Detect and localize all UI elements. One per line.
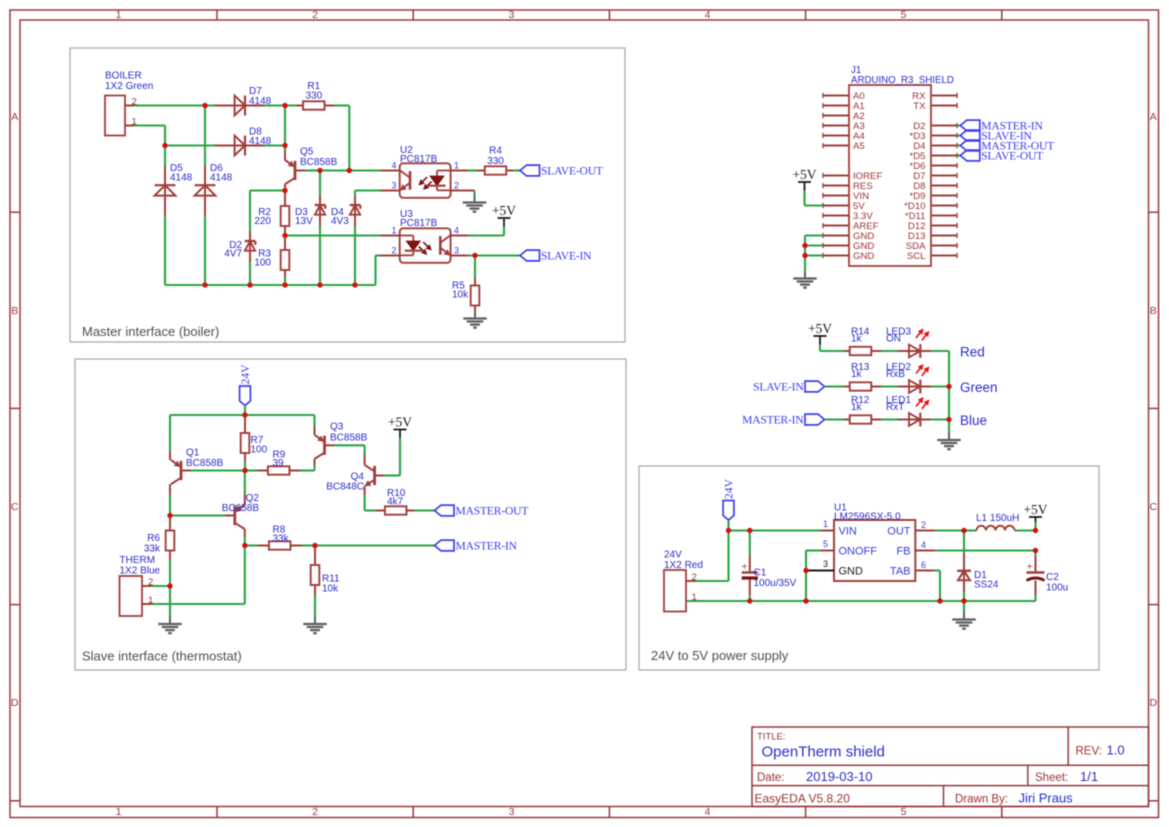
svg-text:4148: 4148 (210, 173, 233, 184)
svg-text:OUT: OUT (887, 526, 911, 538)
svg-text:1: 1 (391, 225, 396, 235)
svg-text:C: C (1150, 501, 1158, 513)
svg-text:B: B (11, 305, 18, 317)
svg-text:33k: 33k (144, 544, 161, 555)
svg-text:1k: 1k (851, 369, 863, 380)
svg-text:L1 150uH: L1 150uH (976, 513, 1019, 524)
svg-text:Jiri Praus: Jiri Praus (1019, 791, 1074, 806)
svg-text:GND: GND (853, 251, 874, 262)
svg-text:24V: 24V (239, 364, 252, 385)
svg-text:ARDUINO_R3_SHIELD: ARDUINO_R3_SHIELD (851, 75, 954, 86)
svg-text:THERM: THERM (120, 555, 156, 566)
svg-text:R6: R6 (147, 533, 160, 544)
svg-text:BC858B: BC858B (186, 458, 224, 469)
svg-text:2019-03-10: 2019-03-10 (806, 769, 873, 784)
svg-text:100: 100 (254, 257, 271, 268)
svg-text:C: C (11, 501, 19, 513)
svg-text:Q5: Q5 (300, 146, 314, 157)
svg-text:Slave interface (thermostat): Slave interface (thermostat) (82, 649, 242, 664)
svg-text:24V: 24V (723, 478, 736, 499)
svg-text:Sheet:: Sheet: (1035, 772, 1068, 784)
svg-text:LM2596SX-5.0: LM2596SX-5.0 (834, 511, 901, 522)
svg-text:OpenTherm shield: OpenTherm shield (762, 744, 885, 761)
svg-text:PC817B: PC817B (400, 218, 438, 229)
svg-text:MASTER-IN: MASTER-IN (742, 414, 804, 427)
svg-text:1: 1 (116, 9, 122, 21)
svg-text:Date:: Date: (757, 772, 785, 784)
svg-text:13V: 13V (295, 216, 313, 227)
svg-text:1: 1 (454, 160, 459, 170)
svg-text:2: 2 (921, 520, 926, 530)
svg-text:MASTER-IN: MASTER-IN (456, 540, 518, 553)
svg-text:33k: 33k (273, 534, 290, 545)
svg-text:Drawn By:: Drawn By: (955, 794, 1008, 806)
svg-text:BC858B: BC858B (222, 503, 260, 514)
svg-text:39: 39 (273, 458, 285, 469)
svg-text:4V3: 4V3 (331, 216, 349, 227)
svg-text:D: D (11, 697, 19, 709)
svg-text:2: 2 (312, 806, 318, 818)
svg-text:4V7: 4V7 (224, 249, 242, 260)
svg-text:B: B (1150, 305, 1157, 317)
svg-text:+: + (741, 562, 747, 573)
svg-text:24V: 24V (664, 550, 682, 561)
svg-text:4: 4 (705, 806, 711, 818)
svg-text:+5V: +5V (492, 203, 516, 218)
svg-text:5: 5 (901, 9, 907, 21)
svg-text:Master interface (boiler): Master interface (boiler) (82, 324, 219, 339)
svg-text:2: 2 (312, 9, 318, 21)
svg-text:1: 1 (823, 519, 828, 529)
svg-text:VIN: VIN (839, 526, 857, 538)
svg-text:100u/35V: 100u/35V (754, 578, 797, 589)
svg-text:SS24: SS24 (974, 580, 999, 591)
svg-text:ON: ON (886, 334, 901, 345)
svg-text:10k: 10k (452, 290, 469, 301)
svg-text:BC858B: BC858B (330, 433, 368, 444)
svg-text:BC848C: BC848C (326, 482, 364, 493)
svg-text:TAB: TAB (890, 566, 911, 578)
svg-text:4: 4 (391, 160, 396, 170)
svg-text:RxB: RxB (886, 369, 905, 380)
svg-text:R4: R4 (489, 146, 502, 157)
svg-text:100: 100 (251, 444, 268, 455)
svg-text:EasyEDA V5.8.20: EasyEDA V5.8.20 (755, 792, 851, 806)
svg-text:2: 2 (454, 180, 459, 190)
svg-text:4k7: 4k7 (387, 497, 404, 508)
svg-text:+5V: +5V (792, 167, 816, 182)
svg-text:3: 3 (454, 245, 459, 255)
svg-text:1X2 Green: 1X2 Green (105, 81, 153, 92)
svg-text:Green: Green (960, 380, 998, 395)
svg-text:PC817B: PC817B (400, 154, 438, 165)
svg-text:Blue: Blue (960, 413, 987, 428)
svg-text:GND: GND (839, 566, 864, 578)
svg-text:MASTER-OUT: MASTER-OUT (456, 505, 529, 518)
svg-text:1/1: 1/1 (1080, 769, 1098, 784)
svg-text:3: 3 (823, 559, 828, 569)
svg-text:1X2 Blue: 1X2 Blue (120, 566, 161, 577)
svg-text:100u: 100u (1046, 583, 1068, 594)
svg-text:SCL: SCL (907, 251, 926, 262)
svg-text:A: A (1150, 111, 1157, 123)
svg-text:TITLE:: TITLE: (757, 732, 786, 743)
svg-text:4: 4 (454, 225, 459, 235)
svg-text:3: 3 (509, 9, 515, 21)
svg-text:6: 6 (921, 560, 926, 570)
svg-text:RxT: RxT (886, 402, 904, 413)
svg-text:A: A (11, 111, 18, 123)
svg-text:TX: TX (913, 101, 926, 112)
svg-text:SLAVE-IN: SLAVE-IN (541, 250, 592, 263)
svg-text:5: 5 (901, 806, 907, 818)
svg-text:1: 1 (116, 806, 122, 818)
svg-text:4148: 4148 (249, 136, 272, 147)
svg-text:+5V: +5V (808, 321, 832, 336)
svg-text:24V to 5V power supply: 24V to 5V power supply (651, 648, 789, 663)
svg-text:REV:: REV: (1076, 746, 1102, 758)
svg-text:FB: FB (896, 546, 910, 558)
svg-text:1k: 1k (851, 402, 863, 413)
svg-text:Red: Red (960, 345, 985, 360)
svg-text:A5: A5 (853, 141, 865, 152)
svg-text:330: 330 (305, 91, 322, 102)
svg-text:10k: 10k (322, 584, 339, 595)
svg-text:330: 330 (487, 156, 504, 167)
svg-text:4148: 4148 (249, 96, 272, 107)
svg-text:D: D (1150, 697, 1158, 709)
svg-text:ONOFF: ONOFF (839, 546, 878, 558)
svg-text:BOILER: BOILER (105, 71, 142, 82)
svg-text:+5V: +5V (388, 414, 412, 429)
svg-text:1.0: 1.0 (1107, 743, 1125, 758)
svg-text:4: 4 (921, 540, 926, 550)
svg-text:4: 4 (705, 9, 711, 21)
svg-text:SLAVE-OUT: SLAVE-OUT (541, 165, 603, 178)
svg-text:SLAVE-IN: SLAVE-IN (753, 381, 804, 394)
svg-text:220: 220 (254, 216, 271, 227)
svg-text:Q3: Q3 (330, 422, 344, 433)
svg-text:3: 3 (391, 180, 396, 190)
svg-text:SLAVE-OUT: SLAVE-OUT (981, 150, 1043, 163)
svg-text:5: 5 (823, 539, 828, 549)
svg-text:1X2 Red: 1X2 Red (664, 560, 703, 571)
svg-text:1k: 1k (851, 334, 863, 345)
svg-text:C1: C1 (754, 568, 767, 579)
svg-text:+: + (1027, 562, 1033, 573)
svg-text:BC858B: BC858B (300, 157, 338, 168)
svg-text:2: 2 (391, 245, 396, 255)
svg-text:C2: C2 (1046, 572, 1059, 583)
svg-text:4148: 4148 (170, 173, 193, 184)
svg-text:+5V: +5V (1023, 502, 1047, 517)
svg-text:3: 3 (509, 806, 515, 818)
